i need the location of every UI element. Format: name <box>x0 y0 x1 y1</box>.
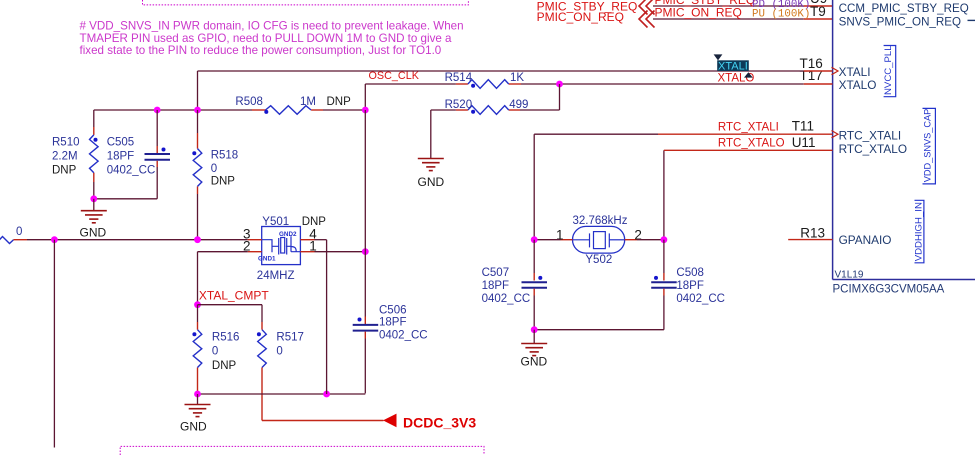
wire left vertical down <box>53 240 55 448</box>
crystal Y501 <box>243 216 326 282</box>
svg-text:0: 0 <box>16 226 22 238</box>
resistor R520 <box>431 99 560 114</box>
svg-text:DCDC_3V3: DCDC_3V3 <box>403 415 476 431</box>
svg-text:C505: C505 <box>107 136 135 148</box>
svg-text:GND: GND <box>180 419 207 433</box>
svg-text:R518: R518 <box>211 149 239 161</box>
junction R518 bottom <box>194 236 201 243</box>
svg-text:T9: T9 <box>810 4 826 19</box>
junction R510 bottom <box>90 195 97 202</box>
pin lead XTALO at IC <box>804 83 833 85</box>
svg-text:1M: 1M <box>300 96 316 108</box>
svg-text:1K: 1K <box>510 72 524 84</box>
svg-text:499: 499 <box>509 99 528 111</box>
ground symbol at R516 <box>185 394 211 417</box>
svg-text:32.768kHz: 32.768kHz <box>573 215 628 227</box>
svg-text:XTAL_CMPT: XTAL_CMPT <box>199 289 269 303</box>
svg-text:GND: GND <box>80 226 107 240</box>
svg-text:CCM_PMIC_STBY_REQ: CCM_PMIC_STBY_REQ <box>839 2 969 15</box>
resistor 0 ohm at left edge (partial) <box>0 226 27 244</box>
wire Y501 pin 2 to XTAL_CMPT <box>198 252 248 305</box>
ground symbol at R510 <box>81 199 107 223</box>
svg-text:R520: R520 <box>445 99 473 111</box>
svg-text:XTALO: XTALO <box>839 78 877 92</box>
wire Y502 pin1 <box>534 239 560 241</box>
resistor R516 <box>192 305 239 394</box>
resistor R517 <box>257 322 304 368</box>
wire Y502 pin2 <box>637 239 664 241</box>
junction OSC_CLK column pin1 <box>362 248 369 255</box>
svg-text:RTC_XTALI: RTC_XTALI <box>718 122 779 134</box>
svg-text:R516: R516 <box>212 331 240 343</box>
svg-text:RTC_XTALO: RTC_XTALO <box>718 137 785 149</box>
svg-text:R517: R517 <box>276 331 304 343</box>
pin lead XTALI at IC <box>804 70 833 72</box>
junction C507 bottom <box>531 326 538 333</box>
svg-text:DNP: DNP <box>212 360 237 372</box>
pin input chevron XTALI <box>832 67 839 74</box>
svg-text:18PF: 18PF <box>379 317 407 329</box>
junction Y501 pin4 column at rail <box>323 391 330 398</box>
wire Y501 pin1 to OSC_CLK column <box>315 251 366 253</box>
wire PMIC_ON_REQ to IC pin T9 <box>653 18 804 20</box>
wire Y501 pin4 down <box>315 240 327 394</box>
junction R508 left / R518 top <box>194 107 201 114</box>
svg-text:R508: R508 <box>235 96 263 108</box>
svg-text:SNVS_PMIC_ON_REQ: SNVS_PMIC_ON_REQ <box>839 15 961 28</box>
svg-text:R13: R13 <box>800 226 825 241</box>
ground symbol at C507 <box>521 330 547 356</box>
svg-text:PMIC_ON_REQ: PMIC_ON_REQ <box>537 10 624 24</box>
resistor R518 <box>192 110 238 240</box>
svg-text:0402_CC: 0402_CC <box>676 293 725 305</box>
svg-text:T17: T17 <box>800 68 823 83</box>
junction XTALO/R520 <box>556 81 563 88</box>
wire R510/C505 bottom <box>94 198 157 200</box>
svg-text:GND1: GND1 <box>258 256 276 263</box>
svg-text:DNP: DNP <box>211 175 236 187</box>
svg-text:DNP: DNP <box>327 96 352 108</box>
svg-text:0: 0 <box>276 346 282 358</box>
svg-text:XTALI: XTALI <box>718 61 748 73</box>
svg-text:24MHZ: 24MHZ <box>257 270 295 282</box>
svg-text:# VDD_SNVS_IN PWR domain, IO C: # VDD_SNVS_IN PWR domain, IO CFG is need… <box>80 20 464 33</box>
power group label VDDHIGH_IN <box>913 200 924 262</box>
svg-text:18PF: 18PF <box>676 280 704 292</box>
svg-text:R510: R510 <box>52 136 80 148</box>
svg-text:GPANAIO: GPANAIO <box>839 233 892 247</box>
power group label NVCC_PLL <box>883 45 896 97</box>
svg-text:Y501: Y501 <box>262 216 289 228</box>
capacitor C507 <box>482 240 547 330</box>
wire XTALI vertical to R508 row <box>197 71 199 110</box>
capacitor C506 <box>353 252 428 394</box>
resistor R508 <box>235 96 351 114</box>
pin input chevron RTC_XTALI <box>832 131 839 138</box>
power symbol DCDC_3V3 arrow <box>383 414 397 428</box>
svg-text:0402_CC: 0402_CC <box>107 165 156 177</box>
svg-text:V1L19: V1L19 <box>835 270 864 281</box>
selection marker triangle up <box>744 72 753 77</box>
off-page connector PMIC_ON_REQ <box>639 11 655 28</box>
off-page connector PMIC_STBY_REQ <box>639 0 655 15</box>
svg-text:Y502: Y502 <box>585 254 612 266</box>
wire stub right of SNVS_PMIC_ON_REQ <box>968 19 975 21</box>
wire RTC_XTALI from corner down <box>534 134 658 240</box>
wire left horizontal to Y501 pin 3 <box>27 239 248 241</box>
svg-text:2.2M: 2.2M <box>52 151 78 163</box>
capacitor C505 <box>107 110 170 199</box>
svg-text:RTC_XTALI: RTC_XTALI <box>839 129 902 143</box>
svg-text:OSC_CLK: OSC_CLK <box>369 70 420 82</box>
comment box dotted border bottom <box>120 446 484 455</box>
crystal Y502 <box>556 215 642 266</box>
capacitor C508 <box>651 240 725 330</box>
resistor R514 <box>445 72 525 88</box>
svg-text:TMAPER PIN used as GPIO, need: TMAPER PIN used as GPIO, need to PULL DO… <box>80 32 453 45</box>
svg-text:GND2: GND2 <box>279 231 297 238</box>
svg-text:T11: T11 <box>792 119 814 134</box>
svg-text:0: 0 <box>211 163 217 175</box>
svg-text:VDD_SNVS_CAP: VDD_SNVS_CAP <box>923 109 933 183</box>
svg-text:fixed state to the PIN to redu: fixed state to the PIN to reduce the pow… <box>80 44 442 57</box>
wire R508 row <box>94 109 366 111</box>
svg-text:DNP: DNP <box>52 165 77 177</box>
wire PMIC_STBY_REQ to IC pin U9 <box>653 5 804 7</box>
svg-text:XTALI: XTALI <box>839 65 871 79</box>
wire R517 to DCDC_3V3 <box>262 368 384 421</box>
svg-text:VDDHIGH_IN: VDDHIGH_IN <box>913 202 924 261</box>
IC U5xx PCIMX6G3CVM05AA body border <box>833 0 975 280</box>
wire RTC_XTALO red to IC pin U11 <box>664 149 833 151</box>
junction Y502 pin2 node <box>661 236 668 243</box>
junction C505 top <box>154 107 161 114</box>
wire R520 to GND <box>430 110 432 159</box>
wire R520 to XTALO <box>559 84 561 110</box>
wire bottom rail XTAL gnd <box>198 393 366 395</box>
comment text block <box>80 20 464 58</box>
resistor R510 <box>52 110 98 199</box>
svg-text:C508: C508 <box>676 267 704 279</box>
svg-text:18PF: 18PF <box>482 280 510 292</box>
svg-text:18PF: 18PF <box>107 151 135 163</box>
svg-text:C506: C506 <box>379 304 407 316</box>
wire RTC_XTALI red to IC pin T11 <box>658 133 833 135</box>
wire OSC_CLK column <box>364 110 366 252</box>
comment box dotted border top <box>143 0 469 5</box>
power group label VDD_SNVS_CAP <box>923 108 936 183</box>
svg-text:PU (100K): PU (100K) <box>752 9 810 21</box>
svg-text:U11: U11 <box>792 135 816 150</box>
net alias XTALI selected highlight <box>717 60 749 72</box>
svg-text:PCIMX6G3CVM05AA: PCIMX6G3CVM05AA <box>833 284 945 296</box>
pin lead GPANAIO R13 <box>788 239 832 241</box>
junction left vertical <box>51 236 58 243</box>
svg-text:PMIC_ON_REQ: PMIC_ON_REQ <box>655 6 742 20</box>
junction R508 right / OSC_CLK <box>362 107 369 114</box>
junction R516 bottom <box>194 391 201 398</box>
svg-text:0402_CC: 0402_CC <box>482 293 531 305</box>
wire XTALI net horizontal <box>198 70 804 72</box>
svg-text:C507: C507 <box>482 267 510 279</box>
selection marker triangle down <box>714 54 723 60</box>
junction Y502 pin1 node <box>531 236 538 243</box>
junction XTAL_CMPT node <box>194 301 201 308</box>
svg-text:R514: R514 <box>445 72 473 84</box>
svg-text:GND: GND <box>418 175 445 189</box>
wire RTC_XTALO vertical <box>663 150 665 239</box>
svg-text:RTC_XTALO: RTC_XTALO <box>839 142 907 156</box>
svg-text:0: 0 <box>212 346 218 358</box>
svg-text:0402_CC: 0402_CC <box>379 329 428 341</box>
wire XTAL_CMPT to R517 <box>198 305 263 322</box>
wire OSC_CLK / XTALO row <box>365 84 803 110</box>
ground symbol at R520 <box>418 159 444 171</box>
svg-text:GND: GND <box>521 355 548 369</box>
wire RTC gnd rail <box>534 329 664 331</box>
svg-text:NVCC_PLL: NVCC_PLL <box>883 45 894 95</box>
